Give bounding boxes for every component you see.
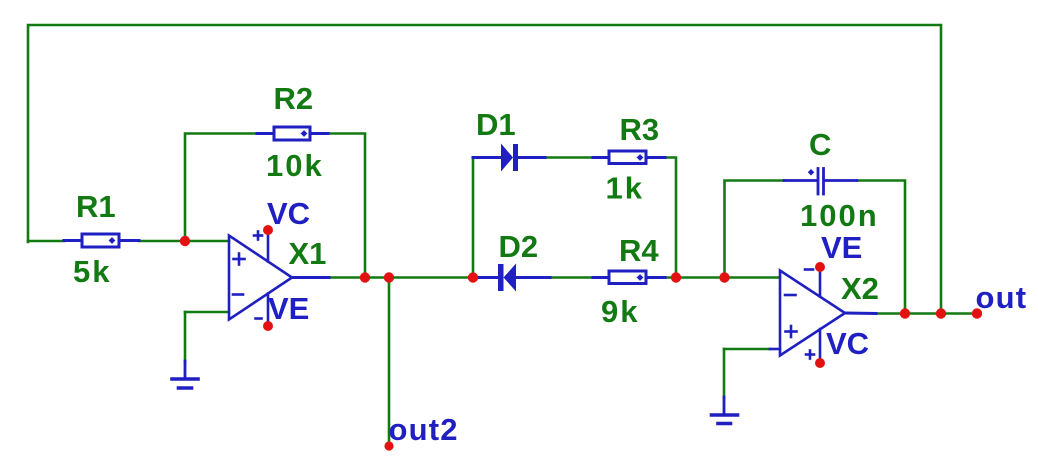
resistor R4 [593,271,665,284]
svg-text:VC: VC [826,326,869,361]
junction node at X1 output / R2 loop [360,272,370,282]
wire R4 to X2 minus input [665,276,780,279]
node out terminal dot [972,308,982,318]
ground at X1 minus input [172,361,198,388]
wire R2 loop left vertical [185,134,257,242]
op-amp X1 [229,236,329,320]
op-amp X1 VC power pin [254,230,268,262]
wire top feedback loop from output to R1 input [28,25,941,314]
wire X1 output row [329,276,474,279]
junction node at R3/R4 branch join [671,272,681,282]
op-amp X1 VE power pin [256,294,269,327]
svg-text:9k: 9k [601,294,639,329]
svg-text:VC: VC [267,196,310,231]
resistor R2 [257,127,328,140]
node out2 terminal dot [384,441,393,450]
svg-text:X1: X1 [289,236,327,271]
svg-text:R4: R4 [619,233,659,268]
op-amp X2 VC power pin [806,329,820,363]
junction node at out2 branch [384,272,394,282]
resistor R3 [593,151,665,164]
wire D1 branch vertical up [472,158,475,278]
op-amp X2 VC pin dot [815,358,825,368]
diode D2 [473,264,550,292]
capacitor C [784,169,857,195]
svg-text:100n: 100n [800,198,879,233]
svg-text:VE: VE [821,230,862,265]
wire R3 down to output row [665,158,676,278]
svg-text:D1: D1 [476,107,516,142]
resistor R1 [64,234,139,247]
wire out2 branch down [388,278,391,445]
wire X1 minus input to ground [184,312,187,362]
wire D2 to R4 [550,276,593,279]
junction node at X2 output / capacitor loop [900,308,910,318]
wire R2 loop right vertical [328,134,365,278]
svg-text:D2: D2 [499,229,539,264]
wire R1 to X1 plus input [139,240,229,243]
svg-text:R1: R1 [76,189,116,224]
wire X2 plus input blue stub [770,348,780,351]
svg-text:X2: X2 [841,271,879,306]
wire X2 plus input to ground [723,349,726,398]
svg-text:C: C [809,127,831,162]
wire X2 output row [876,312,977,315]
ground at X2 plus input [712,397,738,424]
svg-text:out: out [976,280,1028,315]
op-amp X2 VE pin dot [815,262,825,272]
svg-text:1k: 1k [606,171,644,206]
op-amp X2 [780,271,876,356]
svg-text:R2: R2 [274,81,314,116]
resistor R3 diamond pin mark [637,154,644,161]
junction node at capacitor loop / X2 input [719,272,729,282]
resistor R1 diamond pin mark [109,237,116,244]
wire capacitor loop right vertical [857,181,905,314]
op-amp X1 VC pin dot [263,225,273,235]
wire X1 minus input [185,311,229,314]
svg-text:5k: 5k [73,254,111,289]
wire capacitor loop left vertical [725,181,785,278]
junction node at R1 / X1 input / R2 loop [180,236,190,246]
wire D1 to R3 [545,156,593,159]
svg-text:10k: 10k [266,148,324,183]
diode D1 [473,144,545,172]
junction node at D1/D2 branch split [468,272,478,282]
op-amp X2 VE power pin [805,267,820,297]
svg-text:R3: R3 [620,112,660,147]
op-amp X1 VE pin dot [263,321,273,331]
junction node at X2 output / top feedback loop [936,308,946,318]
svg-text:VE: VE [268,291,309,326]
resistor R2 diamond pin mark [301,130,308,137]
resistor R4 diamond pin mark [637,274,644,281]
capacitor C diamond pin mark [808,169,815,176]
svg-text:out2: out2 [389,412,459,447]
wire X2 plus input [724,348,771,351]
wire R1 row left [28,240,64,243]
